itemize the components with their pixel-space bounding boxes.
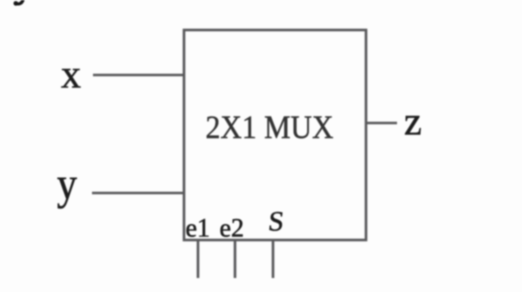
svg-text:2X1 MUX: 2X1 MUX (206, 110, 334, 146)
wire input y (92, 192, 184, 195)
wire pin e1 (197, 240, 200, 278)
svg-text:y: y (57, 160, 77, 210)
svg-text:S: S (267, 207, 286, 238)
wire input x (93, 74, 184, 77)
svg-text:z: z (404, 99, 422, 144)
svg-text:x: x (61, 52, 81, 97)
wire output z (366, 122, 397, 125)
wire pin S (272, 240, 275, 278)
svg-text:e1: e1 (186, 214, 211, 243)
svg-text:e2: e2 (220, 214, 245, 243)
op block 2X1 MUX (rectangle body) (184, 30, 366, 240)
wire pin e2 (234, 240, 237, 278)
stray glyph fragment (tail of letter y from cropped line above) (16, 0, 23, 4)
